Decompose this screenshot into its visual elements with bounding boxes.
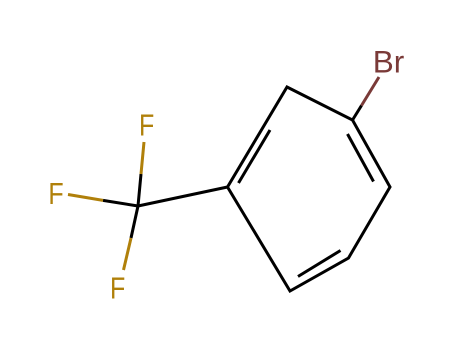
svg-text:F: F [139, 108, 154, 142]
bond C-F1 black half [138, 174, 141, 206]
double bond inner line (right edge) [348, 134, 374, 182]
double bond inner line (upper-left edge) [239, 130, 271, 183]
svg-text:Br: Br [373, 44, 405, 80]
bond C(CF3)-ring [138, 187, 228, 206]
bond ring-Br black half [353, 106, 362, 121]
bond C-F3 black half [131, 206, 138, 238]
benzene ring outline [228, 87, 391, 291]
bond C-F2 black half [103, 200, 138, 206]
svg-text:F: F [48, 176, 63, 210]
bond C-F2 gold half [68, 195, 103, 201]
bond C-F1 gold half [141, 142, 144, 174]
double bond inner line (lower edge) [298, 251, 341, 277]
svg-text:F: F [110, 271, 125, 305]
bond C-F3 gold half [124, 238, 132, 270]
bond ring-Br red half [362, 77, 380, 106]
